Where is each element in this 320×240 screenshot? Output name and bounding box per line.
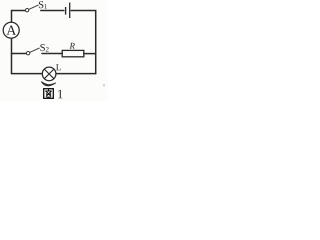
wire left vertical below ammeter — [11, 38, 13, 73]
battery cell long plate — [69, 3, 71, 18]
resistor R box — [62, 50, 84, 56]
caption glyph tu (figure) box — [44, 89, 54, 99]
caption digit 1 — [58, 90, 63, 99]
switch S2 pivot — [26, 52, 29, 55]
wire bottom right (lamp to right corner) — [56, 73, 96, 75]
wire top middle segment (switch S1 to battery) — [41, 10, 64, 12]
switch S1 pivot — [25, 9, 28, 12]
ammeter A circle — [3, 22, 19, 38]
lamp L circle — [42, 67, 56, 81]
label L — [56, 64, 61, 70]
wire top-left segment — [12, 11, 26, 23]
switch S2 blade — [30, 48, 40, 53]
smudge crescent below lamp — [42, 82, 56, 86]
wire bottom left (to lamp) — [12, 73, 43, 75]
label S1 letter S — [39, 1, 43, 8]
wire middle branch between S2 and resistor — [42, 53, 62, 55]
label S1 subscript 1 — [45, 4, 47, 9]
label S2 subscript 2 — [46, 47, 49, 52]
battery cell short plate — [65, 7, 67, 15]
wire middle branch left — [12, 53, 27, 55]
label R — [69, 43, 74, 49]
wire middle branch right — [84, 53, 96, 55]
lamp L cross — [44, 69, 54, 79]
wire top right segment (battery to right corner) — [71, 11, 96, 74]
stray speck right of caption — [103, 84, 105, 86]
label S2 letter S — [40, 44, 44, 51]
ammeter letter A — [6, 26, 16, 35]
switch S1 blade — [29, 5, 39, 9]
